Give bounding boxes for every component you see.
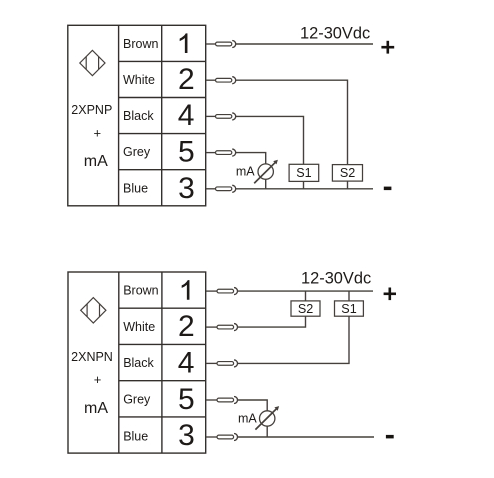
pin number 1: [180, 33, 188, 53]
wire S1 to minus rail (top): [303, 181, 305, 188]
row divider 1: [119, 60, 206, 62]
switch S2 (top): [332, 165, 362, 182]
column divider right: [161, 272, 163, 453]
svg-text:mA: mA: [84, 153, 108, 170]
svg-text:Brown: Brown: [123, 284, 158, 298]
svg-text:2: 2: [178, 63, 195, 96]
wire white pin2 to S2: [236, 80, 348, 164]
svg-text:5: 5: [178, 136, 195, 169]
wire rail to S1 (bottom): [348, 291, 350, 301]
row divider 3: [119, 133, 206, 135]
svg-text:+: +: [94, 372, 102, 387]
connector pin 4 (bottom): [206, 362, 217, 364]
switch S2 (bottom): [291, 301, 320, 316]
row divider 3: [119, 380, 206, 382]
wire black pin4 to S1: [236, 116, 304, 164]
wire blue pin3 minus rail (bottom): [238, 436, 374, 438]
svg-text:Black: Black: [123, 109, 154, 123]
minus terminal (top): [384, 187, 392, 191]
svg-text:Brown: Brown: [123, 37, 158, 51]
row divider 4: [119, 416, 206, 418]
svg-text:Grey: Grey: [123, 392, 151, 406]
svg-text:12-30Vdc: 12-30Vdc: [300, 25, 370, 43]
svg-text:12-30Vdc: 12-30Vdc: [301, 269, 371, 287]
svg-text:3: 3: [178, 419, 195, 452]
wire grey pin5 to meter (bottom): [238, 400, 268, 411]
wire brown pin1 to plus: [236, 43, 373, 45]
svg-text:Blue: Blue: [123, 181, 148, 195]
plus terminal (bottom): [384, 288, 396, 301]
svg-text:2XNPN: 2XNPN: [71, 350, 113, 364]
svg-text:3: 3: [178, 172, 195, 205]
wire rail to S2 (bottom): [305, 291, 307, 301]
svg-text:Grey: Grey: [123, 145, 151, 159]
ammeter M2 (bottom): [255, 406, 279, 430]
svg-text:S1: S1: [341, 302, 356, 316]
svg-text:+: +: [94, 125, 102, 140]
wire black pin4 to S1 (bottom): [238, 316, 349, 363]
svg-text:mA: mA: [236, 165, 255, 179]
connector pin 5 (bottom): [206, 399, 217, 401]
svg-text:4: 4: [178, 99, 195, 132]
svg-text:White: White: [123, 73, 155, 87]
column divider left: [118, 25, 120, 206]
connector pin 1 (bottom): [206, 290, 217, 292]
proximity sensor symbol (diamond): [81, 298, 106, 323]
ammeter M1 (top): [254, 160, 278, 184]
wire meter to minus rail (bottom): [266, 426, 268, 437]
svg-text:2: 2: [178, 310, 195, 343]
svg-text:mA: mA: [238, 411, 257, 425]
connector pin 4: [206, 115, 216, 117]
connector pin 5: [206, 152, 216, 154]
wire blue pin3 minus rail (top): [236, 188, 373, 190]
proximity sensor symbol (diamond): [80, 50, 105, 75]
switch S1 (bottom): [335, 301, 364, 316]
connector pin 2 (bottom): [206, 326, 217, 328]
wire brown pin1 to plus (bottom): [238, 290, 373, 292]
svg-text:Blue: Blue: [123, 429, 148, 443]
plus terminal (top): [381, 41, 394, 54]
svg-text:5: 5: [178, 383, 195, 416]
sensor block 2XPNP outline: [68, 25, 206, 206]
row divider 2: [119, 97, 206, 99]
connector pin 3 (bottom): [206, 436, 217, 438]
svg-text:S2: S2: [298, 302, 313, 316]
svg-text:S1: S1: [296, 166, 311, 180]
connector pin 1: [206, 43, 216, 45]
wire white pin2 to S2 (bottom): [238, 316, 306, 327]
wire grey pin5 to meter: [236, 153, 266, 164]
sensor block 2XNPN outline: [68, 272, 206, 453]
connector pin 2: [206, 79, 216, 81]
svg-text:2XPNP: 2XPNP: [71, 103, 112, 117]
svg-text:White: White: [123, 320, 155, 334]
row divider 2: [119, 343, 206, 345]
svg-text:Black: Black: [123, 356, 154, 370]
minus terminal (bottom): [386, 435, 394, 439]
connector pin 3: [206, 188, 216, 190]
switch S1 (top): [289, 164, 319, 181]
row divider 1: [119, 307, 206, 309]
row divider 4: [119, 169, 206, 171]
pin number 1: [182, 280, 190, 300]
column divider right: [161, 25, 163, 206]
svg-text:S2: S2: [340, 166, 355, 180]
wire S2 to minus rail (top): [347, 181, 349, 189]
svg-text:mA: mA: [84, 400, 108, 417]
wire meter to minus rail (top): [265, 179, 267, 189]
column divider left: [118, 272, 120, 453]
svg-text:4: 4: [178, 346, 195, 379]
